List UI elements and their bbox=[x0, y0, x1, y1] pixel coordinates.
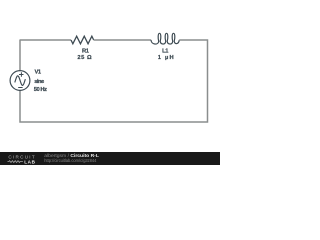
svg-text:50 Hz: 50 Hz bbox=[34, 87, 47, 93]
svg-text:1 µH: 1 µH bbox=[158, 55, 174, 61]
svg-text:25 Ω: 25 Ω bbox=[77, 55, 92, 61]
wire top-left segment bbox=[20, 39, 71, 41]
logo zigzag bbox=[8, 161, 23, 163]
minus sign bbox=[18, 87, 22, 89]
voltage source V1 circle bbox=[10, 71, 30, 91]
wire left vertical upper bbox=[19, 40, 21, 71]
sine wave inside V1 bbox=[15, 76, 26, 86]
svg-text:http://circuitlab.com/c/g3z844: http://circuitlab.com/c/g3z844 bbox=[44, 158, 97, 163]
wire inductor to top-right corner, right side, bottom, left lower bbox=[20, 40, 208, 122]
svg-text:L1: L1 bbox=[162, 48, 169, 54]
svg-text:V1: V1 bbox=[35, 70, 42, 76]
svg-text:R1: R1 bbox=[82, 48, 90, 54]
wire between resistor and inductor bbox=[94, 39, 152, 41]
inductor L1 bbox=[151, 33, 179, 44]
svg-text:LAB: LAB bbox=[24, 159, 35, 164]
footer watermark bar bbox=[0, 152, 220, 165]
svg-text:sine: sine bbox=[34, 79, 45, 85]
plus sign bbox=[19, 72, 24, 76]
resistor R1 bbox=[71, 36, 94, 44]
